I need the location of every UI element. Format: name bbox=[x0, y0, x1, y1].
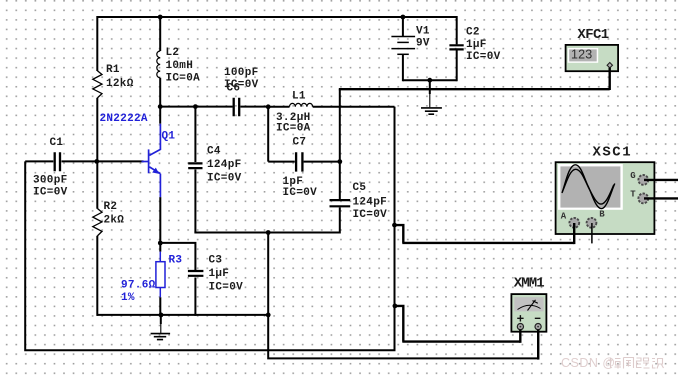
svg-text:V1: V1 bbox=[416, 26, 430, 38]
svg-text:R2: R2 bbox=[104, 201, 118, 213]
svg-text:C6: C6 bbox=[227, 83, 241, 95]
wire XFC1 connection bbox=[339, 89, 341, 199]
resistor R3 (highlighted blue) bbox=[156, 252, 165, 298]
svg-text:C5: C5 bbox=[353, 182, 367, 194]
wire V1 branch bbox=[402, 17, 404, 81]
svg-text:2N2222A: 2N2222A bbox=[100, 113, 148, 125]
wire Q1 emitter stub bbox=[159, 197, 161, 243]
capacitor C5 bbox=[330, 200, 351, 206]
svg-text:100pF: 100pF bbox=[224, 67, 259, 79]
svg-text:Q1: Q1 bbox=[162, 131, 176, 143]
capacitor C2 bbox=[449, 45, 463, 49]
svg-text:XFC1: XFC1 bbox=[577, 27, 608, 43]
svg-text:2kΩ: 2kΩ bbox=[104, 215, 125, 227]
wire scope G terminal bbox=[644, 179, 678, 181]
svg-text:XSC1: XSC1 bbox=[592, 144, 632, 160]
wire scope T terminal bbox=[644, 197, 678, 199]
watermark glyph 识 bbox=[652, 359, 664, 369]
wire XMM minus terminal stub bbox=[537, 330, 539, 360]
svg-text:R3: R3 bbox=[169, 255, 183, 267]
svg-text:123: 123 bbox=[571, 48, 592, 62]
wire XMM plus terminal stub bbox=[519, 330, 521, 343]
terminal connection wires drawn above instruments bbox=[520, 68, 678, 360]
wire C4-C5 bottom rail bbox=[194, 208, 339, 233]
inductor L2 bbox=[157, 51, 160, 78]
junction at V1 minus / C2 / ground bbox=[427, 78, 432, 83]
wire Q1 collector stub bbox=[159, 107, 161, 124]
wire scope B terminal stub bbox=[591, 223, 593, 243]
junction at top rail / V1 bbox=[401, 15, 406, 20]
svg-text:IC=0V: IC=0V bbox=[353, 209, 388, 221]
junction at top rail / L2 bbox=[158, 15, 163, 20]
wire main ground stub bbox=[160, 315, 162, 324]
wire XFC1 terminal stub bbox=[609, 68, 611, 90]
svg-text:IC=0V: IC=0V bbox=[283, 187, 318, 199]
wire ground rail bbox=[97, 314, 268, 316]
inductor L1 bbox=[290, 103, 313, 106]
wire ground tap to XMM minus bbox=[267, 233, 538, 359]
svg-text:T: T bbox=[630, 190, 636, 200]
junction at output node / scope A tap bbox=[392, 223, 397, 228]
wire scope A probe bbox=[395, 225, 575, 243]
junction at ground rail / XMM minus tap bbox=[266, 313, 271, 318]
wire R3 leads bbox=[159, 243, 161, 316]
capacitor C1 bbox=[55, 152, 60, 171]
junction at Q1 base / C1 / R1 / R2 node bbox=[94, 159, 99, 164]
wire output vertical bbox=[394, 107, 396, 351]
svg-text:IC=0V: IC=0V bbox=[33, 187, 68, 199]
svg-text:IC=0V: IC=0V bbox=[207, 173, 242, 185]
watermark glyph 博 bbox=[608, 358, 621, 369]
svg-text:9V: 9V bbox=[416, 38, 430, 50]
junction at collector rail / C4 top bbox=[193, 104, 198, 109]
junction at C7 right / C5 / XFC1 net bbox=[337, 159, 342, 164]
resistor R1 bbox=[93, 71, 102, 98]
watermark glyph 闻 bbox=[624, 358, 634, 369]
wire C4 branch bbox=[194, 107, 196, 233]
svg-text:L2: L2 bbox=[166, 47, 180, 59]
battery V1 bbox=[391, 37, 415, 55]
svg-text:1µF: 1µF bbox=[466, 39, 487, 51]
wire L1 row bbox=[268, 106, 394, 108]
svg-text:1%: 1% bbox=[121, 292, 135, 304]
ground (main) bbox=[151, 334, 171, 340]
wire scope A terminal stub bbox=[573, 223, 575, 244]
junction at C6 / L1 / C7 node bbox=[266, 104, 271, 109]
svg-text:IC=0A: IC=0A bbox=[276, 123, 311, 135]
svg-text:B: B bbox=[599, 210, 605, 220]
junction at collector node / L2 bottom bbox=[158, 104, 163, 109]
svg-text:XMM1: XMM1 bbox=[514, 276, 545, 292]
svg-text:124pF: 124pF bbox=[353, 197, 388, 209]
wire V1 ground stub bbox=[429, 80, 431, 94]
wire XMM plus probe bbox=[395, 306, 520, 342]
svg-text:A: A bbox=[561, 212, 567, 222]
capacitor C7 bbox=[296, 152, 302, 171]
svg-text:C2: C2 bbox=[466, 27, 480, 39]
sine trace 2 bbox=[563, 169, 614, 204]
sine trace 1 bbox=[562, 165, 615, 209]
svg-text:10mH: 10mH bbox=[166, 60, 194, 72]
junction at ground rail / ground symbol bbox=[159, 313, 164, 318]
svg-text:97.6Ω: 97.6Ω bbox=[121, 280, 156, 292]
resistor R2 bbox=[93, 209, 102, 236]
svg-text:C1: C1 bbox=[50, 137, 64, 149]
wire top rail bbox=[97, 16, 457, 18]
svg-text:IC=0V: IC=0V bbox=[209, 282, 244, 294]
capacitor C3 bbox=[188, 271, 204, 276]
svg-text:IC=0A: IC=0A bbox=[166, 73, 201, 85]
wire collector rail bbox=[160, 17, 268, 107]
wire C7 tap vertical bbox=[268, 107, 340, 162]
junction at emitter node / R3 / C3 bbox=[158, 241, 163, 246]
svg-text:C3: C3 bbox=[209, 255, 223, 267]
watermark glyph 强 bbox=[637, 358, 650, 368]
svg-text:1µF: 1µF bbox=[209, 268, 230, 280]
wire C1 row bbox=[25, 160, 143, 162]
svg-text:12kΩ: 12kΩ bbox=[106, 78, 134, 90]
wire C2 branch bbox=[456, 16, 458, 81]
wire feedback bottom rail bbox=[25, 161, 395, 350]
svg-text:C4: C4 bbox=[207, 146, 221, 158]
wire emitter row to C3 bbox=[160, 243, 195, 270]
svg-text:IC=0V: IC=0V bbox=[466, 51, 501, 63]
junction at C4-C5 bottom rail / ground tap bbox=[266, 230, 271, 235]
junction at output node / XMM plus tap bbox=[393, 304, 398, 309]
svg-text:CSDN @: CSDN @ bbox=[561, 356, 616, 370]
svg-text:300pF: 300pF bbox=[33, 175, 68, 187]
wire C3 bottom bbox=[194, 278, 196, 316]
wire R1 branch vertical bbox=[96, 16, 98, 316]
capacitor C6 bbox=[234, 98, 240, 117]
ground (V1) bbox=[421, 108, 442, 114]
svg-text:L1: L1 bbox=[292, 91, 306, 103]
wire V1 bottom rail bbox=[403, 79, 457, 81]
capacitor C4 bbox=[188, 163, 202, 168]
svg-text:C7: C7 bbox=[293, 137, 307, 149]
svg-text:124pF: 124pF bbox=[207, 159, 242, 171]
svg-text:G: G bbox=[630, 171, 635, 181]
svg-text:R1: R1 bbox=[106, 64, 120, 76]
transistor Q1 2N2222A bbox=[142, 124, 161, 197]
